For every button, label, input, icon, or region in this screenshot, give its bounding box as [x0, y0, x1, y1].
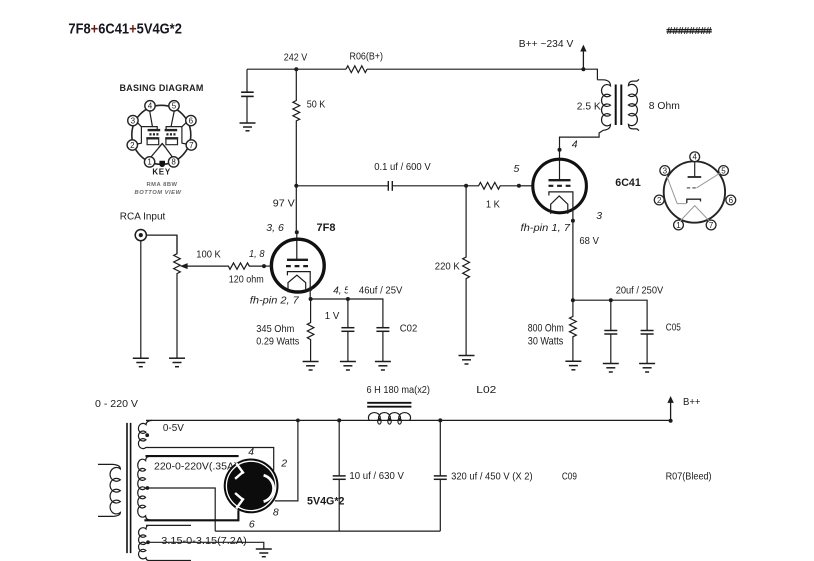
resistor 220K — [463, 186, 470, 355]
svg-text:242 V: 242 V — [284, 52, 308, 64]
ground 220K — [459, 356, 475, 365]
choke L02 core — [367, 403, 411, 407]
wire 3.15V top stub — [146, 524, 191, 526]
wire plate feed down to 7F8 — [295, 186, 298, 260]
label 120 ohm — [229, 274, 264, 286]
svg-text:5: 5 — [172, 102, 177, 111]
resistor R06(B+) — [346, 66, 367, 73]
label 97 V — [273, 198, 295, 210]
label 2.5 K — [577, 101, 601, 113]
RMA 8BW note — [147, 182, 178, 188]
node 10uf tee — [337, 418, 341, 422]
svg-text:7: 7 — [709, 221, 714, 230]
resistor 120 ohm — [184, 263, 264, 269]
node coupling cap / 1K junction — [464, 184, 468, 188]
svg-text:10 uf / 630 V: 10 uf / 630 V — [349, 470, 404, 482]
resistor 800 Ohm — [570, 300, 577, 361]
svg-text:6: 6 — [189, 116, 194, 125]
6C41 socket plate — [688, 162, 702, 177]
svg-text:1 K: 1 K — [486, 199, 500, 211]
ground 345 ohm — [303, 362, 319, 371]
wire HV plate pin6 thick — [144, 510, 238, 520]
6C41 socket cathode — [666, 175, 700, 204]
svg-text:8: 8 — [171, 158, 176, 167]
label 242 V — [284, 52, 308, 64]
node B++ end — [669, 419, 673, 423]
winding 0-5V — [138, 420, 152, 448]
6C41 socket pin 5 — [719, 166, 729, 176]
label 6 (5V4G plate) — [249, 518, 255, 530]
svg-text:1, 8: 1, 8 — [249, 248, 265, 260]
label 320 uf / 450 V (X 2) — [451, 470, 532, 482]
redacted name hashes — [667, 25, 712, 37]
label 5V4G*2 — [307, 495, 345, 507]
svg-text:C09: C09 — [562, 470, 577, 482]
capacitor 46uf/25V — [341, 328, 354, 361]
label 4, 5 — [333, 284, 358, 297]
potentiometer 100K — [174, 235, 181, 358]
power transformer T1 primary winding — [98, 464, 120, 516]
svg-text:########: ######## — [667, 25, 712, 37]
svg-text:BOTTOM VIEW: BOTTOM VIEW — [135, 190, 182, 196]
svg-text:RMA 8BW: RMA 8BW — [147, 182, 178, 188]
label 8 (5V4G filament) — [273, 506, 279, 518]
node 20uf branch — [609, 298, 613, 302]
wire RCA shell down — [140, 241, 142, 358]
svg-text:20uf / 250V: 20uf / 250V — [616, 285, 664, 297]
svg-text:R07(Bleed): R07(Bleed) — [666, 470, 712, 482]
6C41 plate bar — [549, 179, 571, 181]
wire 6C41 plate lead — [559, 150, 561, 180]
svg-text:4: 4 — [248, 446, 254, 458]
node B++ 234V junction — [581, 67, 585, 71]
wire 46uf branch down — [347, 299, 349, 328]
label fh-pin 1, 7 — [521, 222, 572, 234]
rectifier V1 5V4G envelope — [224, 459, 279, 514]
wire 3.15V center tap to ground — [148, 542, 264, 548]
node 46uf branch — [346, 297, 350, 301]
label 0 - 220 V — [95, 398, 138, 410]
svg-text:fh-pin 1, 7: fh-pin 1, 7 — [521, 222, 572, 234]
svg-text:KEY: KEY — [152, 167, 171, 176]
node 0-5V tap — [145, 433, 149, 437]
label 0.1 uf / 600 V — [374, 161, 431, 173]
wire filament pin2 — [146, 448, 274, 471]
node HV center tap — [146, 486, 150, 490]
svg-text:220-0-220V(.35A): 220-0-220V(.35A) — [154, 461, 238, 473]
winding 220-0-220V — [138, 456, 150, 520]
7F8 socket triode A structure — [141, 127, 160, 145]
label 1 K — [486, 199, 500, 211]
node 68V junction — [571, 298, 575, 302]
label 7F8 — [317, 222, 336, 234]
label 6C41 — [615, 177, 641, 189]
7F8 plate bar — [287, 259, 308, 261]
svg-text:4: 4 — [148, 102, 153, 111]
label 0.29 Watts — [256, 335, 299, 347]
node pin8 tee on B+ rail — [296, 419, 300, 423]
label L02 — [476, 384, 496, 396]
svg-text:800 Ohm: 800 Ohm — [528, 322, 564, 334]
6C41 socket pin 7 — [706, 220, 716, 230]
resistor 345 Ohm cathode — [307, 299, 314, 361]
6C41 socket pin 6 — [726, 195, 736, 205]
5V4G plate 2 — [235, 493, 244, 509]
output transformer core — [616, 85, 622, 126]
arrow B++ bottom — [667, 396, 673, 420]
triode U1 7F8 envelope — [271, 239, 324, 292]
ground RCA shell — [133, 358, 149, 367]
svg-text:4, 5: 4, 5 — [333, 285, 350, 297]
wire cathode node to caps — [311, 299, 383, 328]
title 7F8+6C41+5V4G*2 — [68, 21, 181, 38]
svg-text:4: 4 — [692, 153, 697, 162]
svg-text:RCA Input: RCA Input — [120, 210, 166, 222]
7F8 socket pin 6 — [186, 115, 196, 125]
label 1, 8 — [249, 248, 265, 260]
node 3.15V center tap — [146, 540, 150, 544]
svg-text:6 H 180 ma(x2): 6 H 180 ma(x2) — [367, 384, 431, 396]
svg-text:1 V: 1 V — [325, 310, 340, 322]
svg-text:0-5V: 0-5V — [163, 422, 184, 434]
node 97V junction — [294, 184, 298, 188]
7F8 socket pin 8 — [168, 157, 178, 167]
svg-text:6C41: 6C41 — [615, 177, 641, 189]
svg-text:46uf / 25V: 46uf / 25V — [359, 285, 403, 297]
label 3 — [596, 210, 602, 222]
node 320uf tee — [438, 418, 442, 422]
node 242V junction — [294, 67, 298, 71]
svg-text:7F8+6C41+5V4G*2: 7F8+6C41+5V4G*2 — [68, 21, 181, 38]
label 4 (5V4G plate) — [248, 446, 254, 458]
7F8 socket key lug — [159, 161, 165, 167]
svg-text:2: 2 — [130, 141, 135, 150]
ground 800 ohm — [565, 361, 581, 370]
7F8 socket pin 7 — [186, 140, 196, 150]
label fh-pin 2, 7 — [250, 294, 300, 306]
svg-text:5: 5 — [514, 163, 520, 175]
label 68 V — [579, 235, 599, 247]
label 3, 6 — [266, 222, 284, 234]
svg-text:3: 3 — [131, 116, 136, 125]
svg-text:8: 8 — [273, 506, 279, 518]
wire HV plate pin4 thick — [146, 455, 239, 457]
wire 6C41 cathode down — [572, 196, 574, 301]
label C05 — [666, 321, 681, 333]
svg-text:2.5 K: 2.5 K — [577, 101, 601, 113]
label 5 (6C41 grid pin) — [514, 163, 520, 175]
label pin 4 of 6C41 — [572, 139, 578, 151]
7F8 socket pin 2 — [127, 140, 137, 150]
svg-text:C05: C05 — [666, 321, 681, 333]
6C41 heater caret — [551, 196, 568, 214]
label 10 uf / 630 V — [349, 470, 404, 482]
output transformer T2 secondary — [628, 79, 639, 130]
label 3.15-0-3.15(7.2A) — [161, 535, 247, 547]
6C41 cathode bracket — [549, 192, 573, 196]
svg-text:320 uf / 450 V (X 2): 320 uf / 450 V (X 2) — [451, 470, 532, 482]
ground 46uf — [340, 362, 356, 371]
svg-text:C02: C02 — [400, 322, 418, 334]
label 20uf / 250V — [616, 285, 664, 297]
5V4G plate 1 — [235, 463, 244, 479]
7F8 socket pin 5 — [169, 101, 179, 111]
svg-text:0.29 Watts: 0.29 Watts — [256, 335, 299, 347]
svg-text:7F8: 7F8 — [317, 222, 336, 234]
svg-text:5: 5 — [721, 166, 726, 175]
label R06(B+) — [350, 52, 384, 63]
svg-text:BASING DIAGRAM: BASING DIAGRAM — [120, 83, 205, 93]
node 7F8 plate junction 3,6 — [295, 230, 299, 234]
label 100 K — [196, 249, 221, 261]
wire 242V top rail — [247, 69, 597, 80]
node grid/120ohm junction — [262, 264, 266, 268]
capacitor C02 — [376, 328, 389, 361]
KEY label — [152, 167, 171, 176]
svg-text:B++ ~234 V: B++ ~234 V — [519, 38, 574, 50]
6C41 grid dashes — [549, 185, 571, 187]
6C41 socket grid — [687, 173, 721, 188]
capacitor 20uf — [604, 300, 617, 363]
7F8 socket heater caret — [158, 144, 166, 148]
6C41 socket heater — [680, 206, 709, 221]
svg-text:3, 6: 3, 6 — [266, 222, 284, 234]
label R07(Bleed) — [666, 470, 712, 482]
ground heater center tap — [256, 549, 272, 557]
choke L02 winding — [368, 413, 410, 425]
svg-text:50 K: 50 K — [307, 99, 326, 111]
label 800 Ohm — [528, 322, 564, 334]
svg-text:2: 2 — [280, 457, 287, 469]
7F8 grid dashes — [286, 265, 308, 267]
svg-text:97 V: 97 V — [273, 198, 295, 210]
7F8 cathode bracket — [287, 272, 310, 276]
ground C02 — [375, 362, 391, 371]
resistor 1K — [466, 182, 519, 189]
svg-text:1: 1 — [147, 158, 152, 167]
7F8 socket outline circle — [132, 105, 191, 164]
label 2 (5V4G filament) — [280, 457, 287, 469]
label 46uf / 25V — [359, 285, 403, 297]
output transformer T2 primary — [560, 80, 611, 150]
wire 97V node to coupling cap — [296, 185, 466, 187]
ground C05 — [639, 364, 655, 373]
svg-text:L02: L02 — [476, 384, 496, 396]
wire B+ rail — [146, 419, 671, 421]
6C41 socket pin 2 — [654, 195, 664, 205]
power transformer core — [127, 423, 131, 553]
svg-text:1: 1 — [676, 221, 681, 230]
potentiometer wiper arrow — [180, 263, 188, 269]
node pin 3 cathode — [571, 219, 575, 223]
label 220 K — [435, 261, 460, 273]
label 345 Ohm — [256, 323, 294, 335]
label C09 — [562, 470, 577, 482]
svg-text:3: 3 — [663, 166, 668, 175]
svg-text:345 Ohm: 345 Ohm — [256, 323, 294, 335]
svg-text:68 V: 68 V — [579, 235, 599, 247]
svg-text:fh-pin 2, 7: fh-pin 2, 7 — [250, 294, 300, 306]
label 30 Watts — [528, 335, 564, 347]
6C41 socket pin 1 — [674, 220, 684, 230]
node 1K to grid junction — [517, 184, 521, 188]
svg-text:2: 2 — [657, 196, 662, 205]
label 6 H 180 ma(x2) — [367, 384, 431, 396]
wire B- rail — [215, 530, 440, 532]
wire filament pin8 — [275, 420, 298, 501]
basing diagram title — [120, 83, 205, 93]
arrow B++ ~234V — [580, 45, 586, 70]
wire 7F8 cathode to node — [309, 275, 311, 299]
wire 1K to 6C41 grid — [519, 185, 533, 187]
label 0-5V — [163, 422, 184, 434]
svg-text:30 Watts: 30 Watts — [528, 335, 564, 347]
7F8 socket pin leads — [137, 111, 187, 157]
label B++ ~234 V — [519, 38, 574, 50]
wire RCA to pot — [146, 235, 177, 254]
ground left bypass — [240, 123, 256, 131]
wire HV center tap to B- rail — [147, 488, 215, 531]
svg-text:120 ohm: 120 ohm — [229, 274, 264, 286]
5V4G filament crescent — [264, 475, 274, 501]
node cathode junction — [309, 297, 313, 301]
6C41 socket pin 4 — [690, 152, 700, 162]
winding 3.15V heater — [139, 525, 191, 560]
BOTTOM VIEW note — [135, 190, 182, 196]
svg-text:R06(B+): R06(B+) — [350, 52, 384, 63]
ground 20uf — [603, 364, 619, 373]
svg-text:3.15-0-3.15(7.2A): 3.15-0-3.15(7.2A) — [161, 535, 247, 547]
svg-text:6: 6 — [249, 518, 255, 530]
svg-text:7: 7 — [189, 141, 194, 150]
wire 7F8 grid lead — [264, 265, 272, 267]
7F8 socket pin 4 — [145, 101, 155, 111]
7F8 socket pin 3 — [128, 115, 138, 125]
capacitor C05 — [641, 331, 654, 364]
svg-text:4: 4 — [572, 139, 578, 151]
label RCA Input — [120, 210, 166, 222]
svg-text:220 K: 220 K — [435, 261, 460, 273]
svg-text:8 Ohm: 8 Ohm — [649, 100, 680, 112]
7F8 heater caret — [288, 275, 306, 292]
svg-text:B++: B++ — [683, 396, 701, 408]
wire 68V node to caps — [573, 300, 647, 330]
wire left branch to bypass cap — [246, 69, 248, 123]
label 8 Ohm — [649, 100, 680, 112]
node cathode exit — [308, 287, 312, 291]
svg-text:3: 3 — [596, 210, 602, 222]
capacitor 10uf/630V — [333, 420, 346, 531]
6C41 socket outline circle — [664, 161, 725, 222]
6C41 socket pin 3 — [660, 166, 670, 176]
capacitor 0.1uf/600V — [388, 181, 392, 191]
node transformer to plate junction — [558, 148, 562, 152]
capacitor 320uf/450V — [434, 420, 447, 531]
label 1 V — [325, 310, 340, 322]
svg-text:0.1 uf / 600 V: 0.1 uf / 600 V — [374, 161, 431, 173]
7F8 socket pin 1 — [144, 157, 154, 167]
label 50 K — [307, 99, 326, 111]
7F8 socket triode B structure — [165, 127, 182, 145]
svg-text:6: 6 — [729, 196, 734, 205]
RCA jack J1 — [135, 230, 146, 241]
resistor 50K — [293, 69, 300, 186]
capacitor input bypass — [241, 92, 254, 96]
triode U2 6C41 envelope — [533, 159, 587, 213]
label B++ bottom — [683, 396, 701, 408]
ground potentiometer — [169, 358, 185, 367]
label 220-0-220V(.35A) — [154, 461, 238, 473]
svg-text:100 K: 100 K — [196, 249, 221, 261]
label C02 — [400, 322, 418, 334]
svg-text:0 - 220 V: 0 - 220 V — [95, 398, 138, 410]
